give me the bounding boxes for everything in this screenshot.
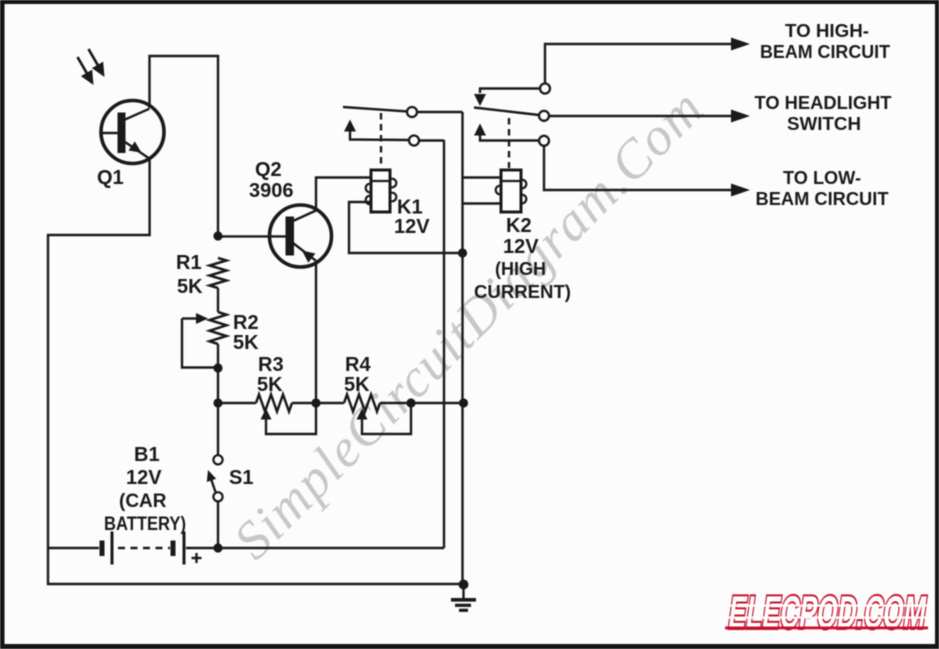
S1 top contact — [213, 455, 222, 464]
svg-text:BEAM CIRCUIT: BEAM CIRCUIT — [756, 189, 889, 209]
svg-text:(CAR: (CAR — [119, 491, 167, 512]
watermark SimpleCircuitDiagram.Com — [222, 77, 715, 570]
svg-text:R4: R4 — [345, 354, 371, 376]
battery dashed link — [118, 547, 170, 550]
svg-text:5K: 5K — [257, 374, 283, 396]
wire Q2 collector to K1 coil — [316, 178, 371, 212]
svg-text:K2: K2 — [506, 215, 532, 237]
K1 bottom contact — [409, 136, 419, 146]
R2 wiper — [182, 313, 218, 368]
ground — [451, 584, 476, 610]
wire Q1 emitter down-left frame — [48, 159, 459, 584]
svg-text:5K: 5K — [233, 332, 259, 354]
S1 blade — [207, 470, 216, 492]
node rail right — [459, 398, 468, 407]
border frame — [0, 0, 939, 4]
K1 top contact — [407, 107, 417, 117]
label B1 — [104, 444, 186, 535]
svg-text:S1: S1 — [229, 467, 253, 489]
wire base of Q2 — [218, 235, 270, 237]
wire K2 middle to headlight switch — [549, 110, 750, 123]
svg-text:Q2: Q2 — [255, 159, 282, 181]
wire battery riser — [443, 140, 445, 548]
svg-text:Q1: Q1 — [97, 167, 124, 189]
resistor R3 — [256, 395, 292, 412]
S1 bottom contact — [213, 492, 222, 501]
label Q1 — [97, 167, 124, 189]
label R1 — [176, 252, 203, 298]
node Q2 emitter rail — [311, 398, 320, 407]
K2 dashed link — [508, 118, 510, 168]
light arrow 1 — [78, 57, 94, 85]
wire K1 contact bus down — [461, 112, 463, 584]
light arrow 2 — [89, 49, 105, 77]
label to low-beam circuit — [756, 168, 889, 209]
label K2 — [474, 215, 571, 302]
svg-text:5K: 5K — [177, 276, 203, 298]
svg-text:TO HIGH-: TO HIGH- — [785, 21, 869, 41]
svg-text:BATTERY): BATTERY) — [104, 514, 186, 535]
wire battery right — [186, 547, 444, 549]
wire rail segment 2 — [292, 402, 344, 404]
K2 bottom actuator — [474, 124, 539, 141]
K2 bottom contact — [539, 136, 549, 146]
wire Q2 emitter down — [315, 261, 317, 403]
svg-text:12V: 12V — [126, 467, 162, 489]
battery cell 2 long plate — [183, 532, 186, 565]
node R4 wiper rail — [406, 398, 415, 407]
K1 armature — [343, 107, 408, 112]
wire K2 top contact up-right to high beam — [545, 38, 750, 85]
K1 actuator arrow — [344, 120, 409, 141]
wire K2 bottom to low beam — [544, 146, 750, 197]
wire rail segment 1 — [218, 402, 256, 404]
svg-text:(HIGH: (HIGH — [495, 259, 546, 279]
label R4 — [344, 354, 371, 396]
label K1 — [394, 197, 430, 239]
node rail left — [213, 398, 222, 407]
wire rail segment 3 — [380, 402, 464, 404]
wire K1 top contact right — [418, 111, 463, 113]
K2 middle contact — [539, 111, 549, 121]
wire R2 to rail — [217, 344, 219, 403]
svg-text:3906: 3906 — [249, 180, 294, 202]
wire battery left — [48, 547, 99, 549]
svg-text:R2: R2 — [233, 312, 259, 334]
R4 wiper — [357, 403, 412, 434]
label to headlight switch — [755, 93, 892, 134]
node K1 coil bus — [458, 248, 467, 257]
node ground — [459, 580, 469, 590]
K2 top actuator — [474, 89, 540, 107]
label Q2 — [249, 159, 294, 202]
node battery-S1 — [213, 543, 222, 552]
svg-text:ELECPOD.COM: ELECPOD.COM — [726, 586, 930, 638]
resistor R4 — [344, 395, 380, 412]
battery cell 1 short plate — [100, 541, 105, 557]
battery plus sign — [192, 553, 202, 563]
svg-text:12V: 12V — [394, 216, 430, 238]
label to high-beam circuit — [760, 21, 890, 62]
svg-text:B1: B1 — [134, 444, 160, 466]
wire rail to S1 — [217, 403, 219, 455]
node R2 wiper junction — [213, 363, 222, 372]
wire K1 bottom contact right — [419, 139, 444, 141]
logo ELECPOD.COM — [722, 586, 932, 638]
wire R1-R2 — [217, 288, 219, 312]
wire K2 coil bottom left — [463, 202, 502, 204]
resistor R2 — [210, 312, 227, 344]
relay K1 coil — [366, 170, 397, 212]
label R2 — [233, 312, 259, 354]
R3 wiper — [261, 403, 317, 434]
node junction base-R1 — [213, 231, 222, 240]
label S1 — [229, 467, 253, 489]
svg-text:BEAM CIRCUIT: BEAM CIRCUIT — [760, 42, 890, 62]
svg-text:TO HEADLIGHT: TO HEADLIGHT — [755, 93, 892, 113]
battery cell 2 short plate — [171, 541, 176, 557]
resistor R1 — [210, 258, 227, 288]
phototransistor Q1 — [101, 101, 164, 164]
K2 armature — [474, 108, 539, 116]
transistor Q2 — [270, 205, 332, 267]
svg-text:5K: 5K — [344, 374, 370, 396]
battery cell 1 long plate — [111, 532, 114, 565]
svg-text:R3: R3 — [258, 354, 284, 376]
svg-text:CURRENT): CURRENT) — [474, 282, 571, 302]
svg-text:TO LOW-: TO LOW- — [783, 168, 861, 188]
label R3 — [257, 354, 284, 396]
wire S1 to battery rail — [217, 502, 219, 549]
wire K2 coil top left — [463, 176, 502, 178]
K2 top contact — [540, 84, 550, 94]
K1 dashed link — [380, 113, 382, 168]
relay K2 coil — [496, 170, 527, 212]
wire K1 coil bottom — [349, 202, 461, 253]
svg-text:SWITCH: SWITCH — [787, 114, 861, 134]
svg-text:12V: 12V — [503, 236, 539, 258]
wire Q1 collector to top rail — [150, 56, 219, 236]
svg-text:R1: R1 — [176, 252, 202, 274]
